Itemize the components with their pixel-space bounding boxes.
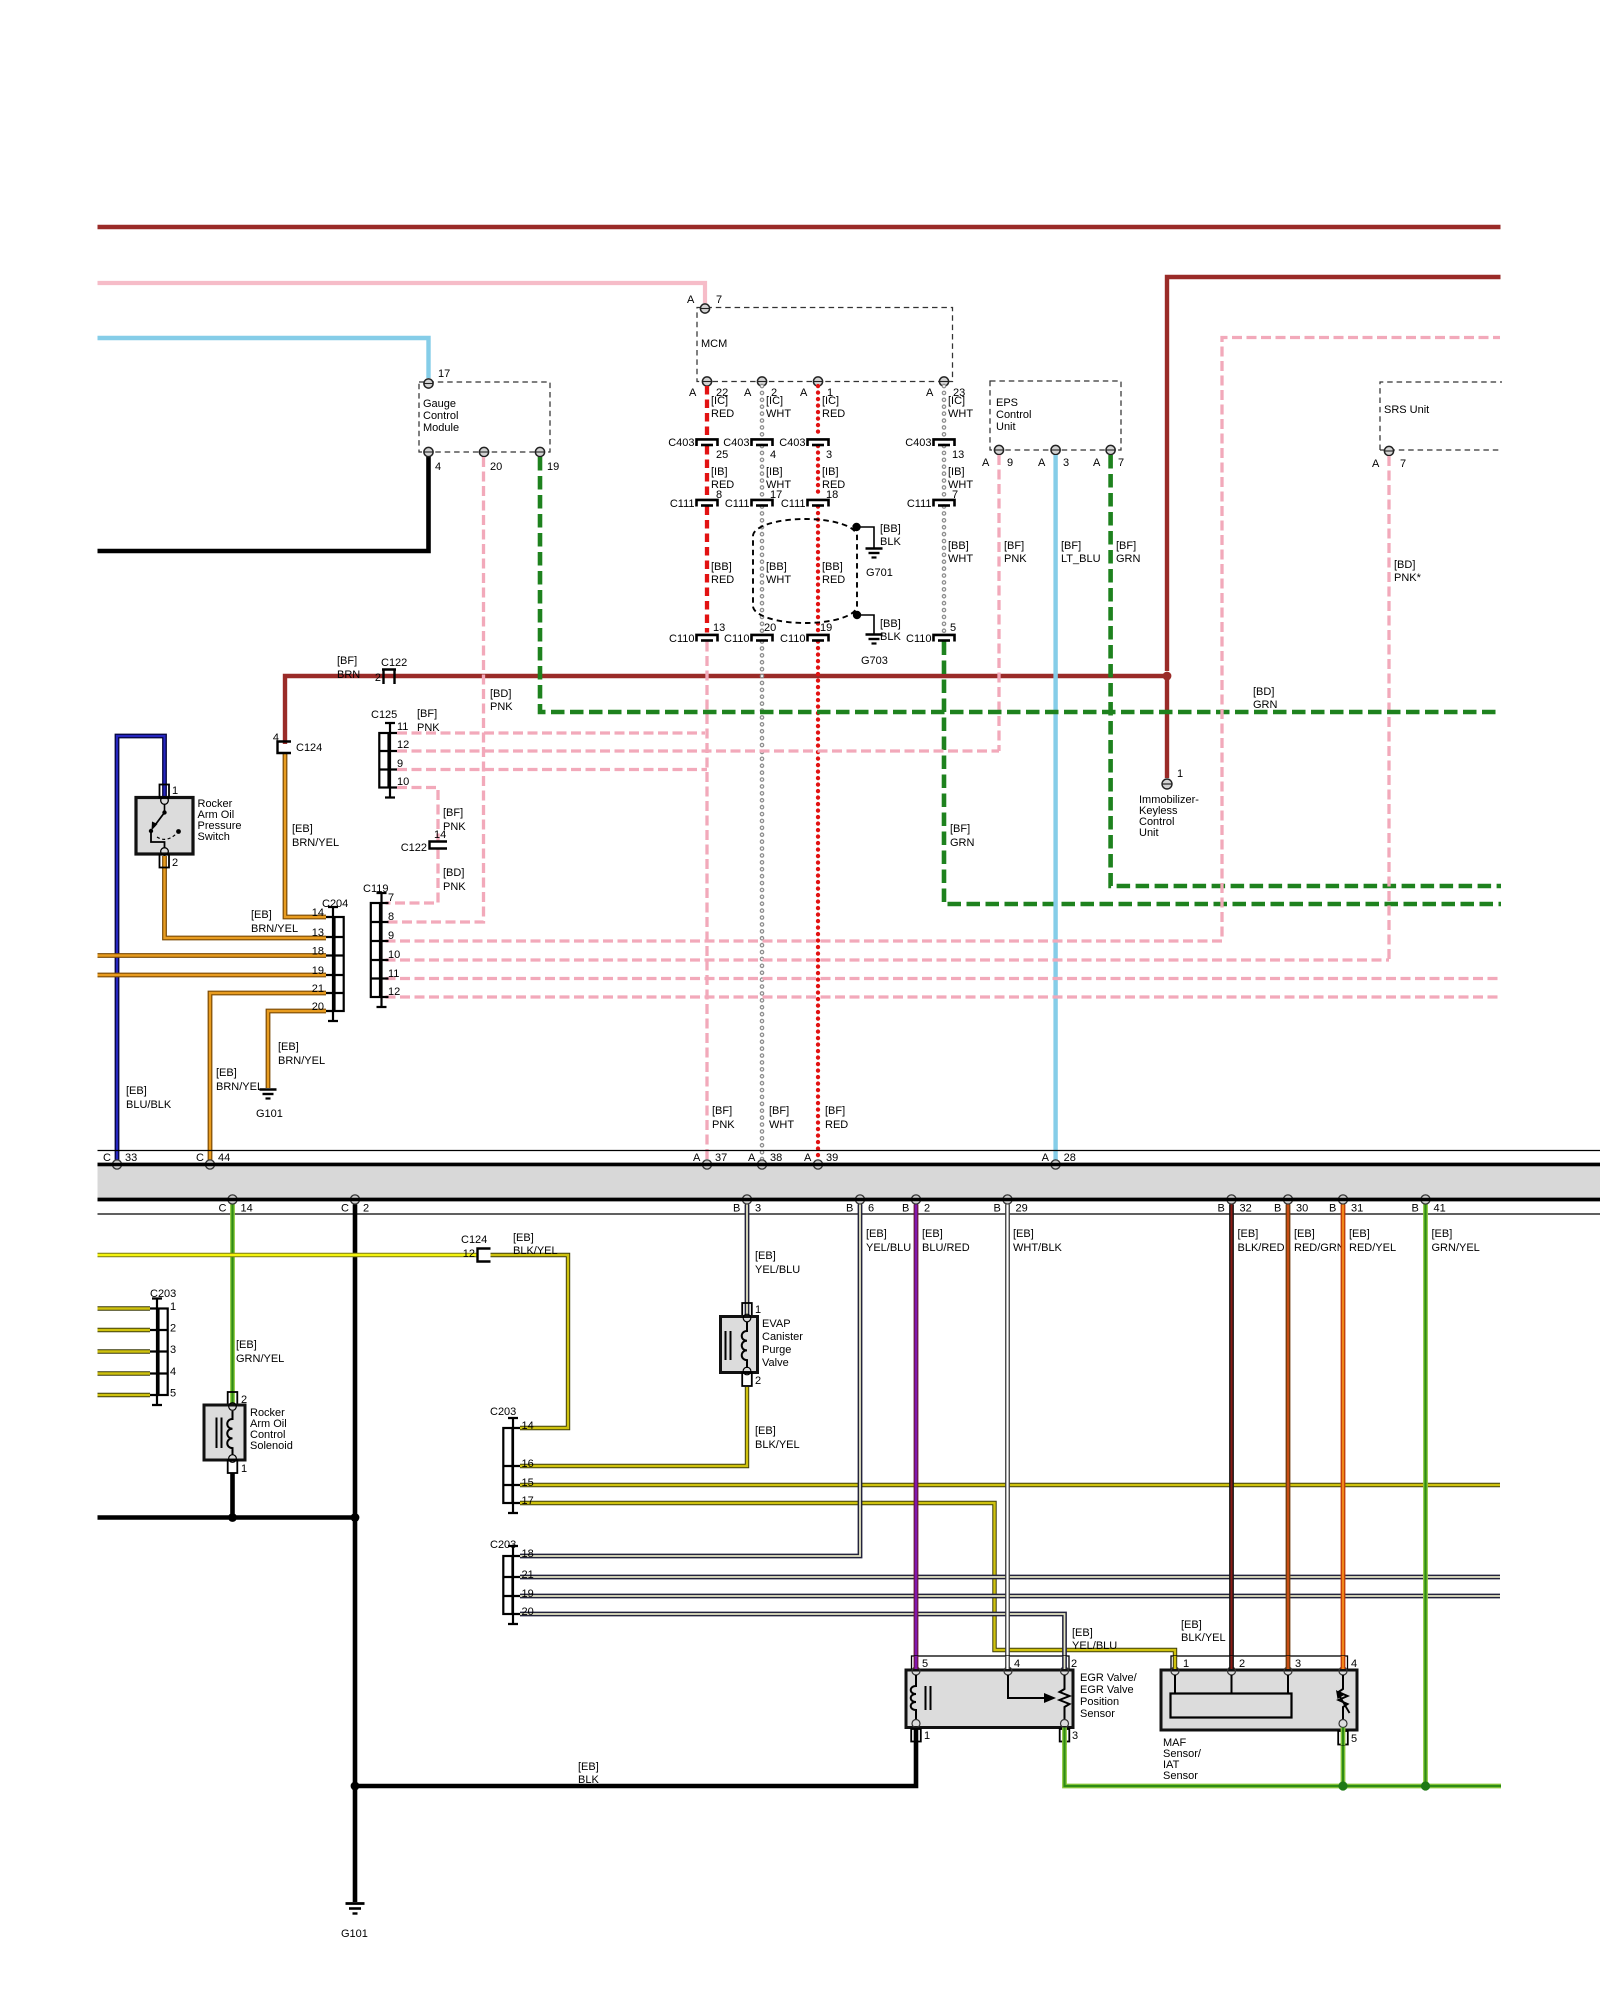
svg-text:Control: Control: [423, 410, 458, 422]
svg-text:BLK/RED: BLK/RED: [1238, 1242, 1285, 1254]
svg-text:C119: C119: [363, 883, 388, 895]
wire: [IC]/[IB]/[BB] WHT MCM A23 (circle chain): [942, 386, 947, 633]
svg-text:9: 9: [388, 930, 394, 942]
connector C124 pin 4: [278, 742, 292, 754]
bus pin C33: [112, 1160, 121, 1169]
bus pin B2: [911, 1195, 920, 1204]
connector C111 x944: [934, 500, 955, 507]
svg-text:18: 18: [312, 946, 324, 958]
svg-text:28: 28: [1064, 1152, 1076, 1164]
svg-text:RED: RED: [711, 479, 734, 491]
wire: [BD] PNK* from SRS A7 to C119 pin 10 row: [1387, 456, 1390, 960]
svg-text:[EB]: [EB]: [1013, 1228, 1034, 1240]
wire: C125 pin 11 pink row: [397, 731, 705, 734]
svg-text:LT_BLU: LT_BLU: [1061, 553, 1101, 565]
svg-text:8: 8: [716, 489, 722, 501]
component: Rocker Arm Oil Control Solenoid: [228, 1392, 238, 1405]
svg-text:3: 3: [1063, 457, 1069, 469]
svg-text:WHT: WHT: [766, 574, 791, 586]
svg-text:C110: C110: [780, 633, 805, 645]
connector C203 (upper, pins 14 16 15 17): [503, 1418, 520, 1513]
wire: shield drain to G703: [857, 615, 874, 634]
svg-text:Unit: Unit: [996, 421, 1016, 433]
connector C203 (left, pins 1-5): [150, 1299, 168, 1406]
svg-text:2: 2: [375, 672, 381, 684]
svg-text:PNK: PNK: [443, 881, 466, 893]
pin A23 MCM: [939, 377, 948, 386]
shield around A2/A1 wires: [753, 519, 857, 623]
svg-text:12: 12: [388, 986, 400, 998]
wire: [BF] PNK below C110-13 to bus A37: [705, 642, 708, 1163]
pin 20 Gauge: [479, 447, 488, 456]
wire: dark red drop to Immobilizer pin 1: [1165, 676, 1169, 778]
svg-text:BRN/YEL: BRN/YEL: [216, 1081, 263, 1093]
wire: black solenoid pin 1 down: [230, 1473, 235, 1518]
svg-text:20: 20: [490, 461, 502, 473]
component: MAF Sensor / IAT Sensor: [1171, 1656, 1348, 1670]
wire: [EB] BLK from EGR pin 1 to C2 vertical: [355, 1741, 916, 1786]
wire: C119 pin 9 pink row to SRS-area riser: [386, 338, 1501, 942]
svg-text:2: 2: [170, 1323, 176, 1335]
connector C119: [371, 893, 389, 1007]
svg-text:5: 5: [170, 1388, 176, 1400]
svg-text:[BF]: [BF]: [712, 1105, 732, 1117]
svg-text:6: 6: [868, 1203, 874, 1215]
svg-text:[BF]: [BF]: [769, 1105, 789, 1117]
svg-text:20: 20: [522, 1606, 534, 1618]
svg-text:A: A: [693, 1152, 701, 1164]
wire: [BF] BRN horizontal: [285, 676, 1167, 744]
svg-text:[EB]: [EB]: [292, 823, 313, 835]
svg-text:B: B: [846, 1203, 853, 1215]
svg-text:12: 12: [463, 1248, 475, 1260]
svg-text:C111: C111: [781, 498, 806, 510]
svg-text:B: B: [902, 1203, 909, 1215]
MAF element rectangle: [1171, 1694, 1292, 1718]
svg-text:9: 9: [397, 758, 403, 770]
svg-text:2: 2: [172, 857, 178, 869]
svg-text:21: 21: [522, 1569, 534, 1581]
svg-text:[EB]: [EB]: [1432, 1228, 1453, 1240]
bus pin A39: [813, 1160, 822, 1169]
bus pin B31: [1338, 1195, 1347, 1204]
svg-text:44: 44: [218, 1152, 230, 1164]
wire: [BD] GRN from Gauge pin 19: [540, 457, 1501, 712]
svg-text:4: 4: [273, 732, 279, 744]
svg-text:19: 19: [547, 461, 559, 473]
svg-text:[EB]: [EB]: [578, 1761, 599, 1773]
svg-text:12: 12: [397, 739, 409, 751]
svg-text:PNK: PNK: [490, 701, 513, 713]
svg-text:10: 10: [388, 949, 400, 961]
ground G701: [866, 549, 883, 558]
component: MCM box: [697, 308, 953, 382]
svg-text:[BF]: [BF]: [417, 708, 437, 720]
connector C125: [379, 723, 397, 798]
EGR position sensor potentiometer: [1008, 1675, 1070, 1720]
svg-text:7: 7: [716, 294, 722, 306]
bus pin A38: [757, 1160, 766, 1169]
svg-text:GRN/YEL: GRN/YEL: [1432, 1242, 1480, 1254]
pin A9 EPS: [994, 445, 1003, 454]
svg-text:BRN/YEL: BRN/YEL: [251, 923, 298, 935]
svg-text:[IB]: [IB]: [711, 466, 728, 478]
ground G703: [866, 635, 883, 644]
svg-text:[BF]: [BF]: [950, 823, 970, 835]
svg-text:BRN/YEL: BRN/YEL: [278, 1055, 325, 1067]
wire: black horizontal left margin: [98, 1515, 356, 1520]
svg-text:C203: C203: [490, 1406, 516, 1418]
svg-text:[IC]: [IC]: [948, 395, 965, 407]
connector C122 pin 14: [430, 842, 448, 849]
svg-text:Solenoid: Solenoid: [250, 1440, 293, 1452]
svg-text:10: 10: [397, 776, 409, 788]
bus pin A37: [702, 1160, 711, 1169]
wire: [EB] BRN/YEL C204 pin 21 to bus C44: [210, 993, 326, 1162]
svg-text:BLU/BLK: BLU/BLK: [126, 1099, 172, 1111]
svg-text:30: 30: [1296, 1203, 1308, 1215]
wire: power rail [B+] dark red horizontal top: [98, 225, 1501, 230]
wire: C125 pin 10 via C122 pin 14 to C119 pin 7: [397, 788, 438, 842]
wire: black bus C2 down to G101: [353, 1205, 358, 1903]
svg-text:15: 15: [522, 1477, 534, 1489]
svg-text:Module: Module: [423, 422, 459, 434]
bus pin B32: [1227, 1195, 1236, 1204]
svg-text:RED: RED: [711, 408, 734, 420]
svg-text:Canister: Canister: [762, 1331, 803, 1343]
IAT thermistor: [1339, 1675, 1348, 1720]
wire: light blue feed to Gauge Control Module pin 17: [98, 338, 429, 378]
wire: [EB] YEL/BLU bus B6 to C203 pin 18: [520, 1205, 860, 1557]
connector C204: [326, 907, 344, 1021]
svg-text:21: 21: [312, 983, 324, 995]
pin A1 MCM: [813, 377, 822, 386]
svg-text:4: 4: [1014, 1658, 1020, 1670]
wire: [EB] BRN/YEL from C124 pin 4 to C204 pin 14: [285, 753, 326, 917]
svg-text:Control: Control: [996, 409, 1031, 421]
svg-text:Purge: Purge: [762, 1344, 791, 1356]
wire: C119 pin 10 pink row to SRS A7 wire: [386, 958, 1390, 961]
svg-text:3: 3: [1072, 1730, 1078, 1742]
ground G101 bottom: [346, 1904, 365, 1914]
svg-text:B: B: [1412, 1203, 1419, 1215]
svg-text:[BB]: [BB]: [711, 561, 732, 573]
svg-text:32: 32: [1240, 1203, 1252, 1215]
svg-text:RED: RED: [825, 1119, 848, 1131]
wire: [EB] GRN/YEL bus C14 to solenoid pin 2: [230, 1205, 235, 1405]
svg-text:A: A: [982, 457, 990, 469]
svg-text:[EB]: [EB]: [866, 1228, 887, 1240]
pin A3 EPS: [1051, 445, 1060, 454]
svg-text:[BD]: [BD]: [490, 688, 511, 700]
svg-text:G101: G101: [341, 1928, 368, 1940]
ground G101 upper: [260, 1090, 277, 1099]
svg-text:1: 1: [172, 785, 178, 797]
wire: C125 pin 12 pink row to EPS A9: [397, 749, 999, 752]
svg-text:B: B: [1274, 1203, 1281, 1215]
wire: green from MAF pin 5: [1341, 1745, 1346, 1786]
svg-text:3: 3: [826, 449, 832, 461]
connector C111 x707: [697, 500, 718, 507]
node: shield tap bottom: [853, 611, 861, 619]
svg-text:A: A: [1372, 458, 1380, 470]
wire: [EB] BLK/YEL from C124 pin 12 to C203 pin 14: [491, 1255, 569, 1428]
svg-text:14: 14: [312, 907, 324, 919]
svg-text:1: 1: [170, 1301, 176, 1313]
connector C203 (lower, pins 18 21 19 20): [503, 1546, 520, 1624]
svg-text:Position: Position: [1080, 1696, 1119, 1708]
svg-text:C124: C124: [296, 742, 322, 754]
bus pin C2: [350, 1195, 359, 1204]
svg-text:BRN/YEL: BRN/YEL: [292, 837, 339, 849]
node: black junction at solenoid drop: [228, 1513, 237, 1522]
connector C403 x762: [752, 439, 773, 446]
svg-text:[EB]: [EB]: [236, 1339, 257, 1351]
wire: [EB] BLU/RED bus B2 to EGR pin 5: [914, 1205, 919, 1670]
pin 1 Immobilizer-Keyless Control Unit: [1162, 779, 1172, 789]
svg-text:C: C: [219, 1203, 227, 1215]
svg-text:[EB]: [EB]: [755, 1425, 776, 1437]
wire: [EB] BLK/YEL from EVAP pin 2 to C203 pin 16: [520, 1387, 747, 1466]
svg-text:YEL/BLU: YEL/BLU: [755, 1264, 800, 1276]
wire: YEL/BLU C203 pin 19 row: [520, 1594, 1500, 1599]
svg-text:RED: RED: [822, 574, 845, 586]
svg-text:1: 1: [1183, 1658, 1189, 1670]
svg-text:[BB]: [BB]: [948, 540, 969, 552]
node: junction dark red at (1167,676): [1163, 672, 1172, 681]
component: EGR Valve / EGR Valve Position Sensor: [912, 1656, 1070, 1670]
wire: [EB] GRN/YEL bus B41 to green junction: [1423, 1205, 1428, 1787]
svg-text:BLK/YEL: BLK/YEL: [513, 1245, 558, 1257]
pin 4 Gauge: [424, 447, 433, 456]
svg-text:19: 19: [312, 965, 324, 977]
svg-text:20: 20: [312, 1001, 324, 1013]
wire: [EB] BLK/YEL C203 pin 15 row: [520, 1483, 1500, 1487]
wire: C125 pin 9 pink row: [397, 768, 707, 771]
node: green junction at B41: [1421, 1781, 1430, 1790]
svg-text:[EB]: [EB]: [513, 1232, 534, 1244]
svg-text:19: 19: [820, 622, 832, 634]
svg-text:2: 2: [924, 1203, 930, 1215]
wire: C119 pin 12 pink row: [386, 995, 1501, 998]
pin A7 SRS: [1384, 446, 1393, 455]
svg-text:EVAP: EVAP: [762, 1318, 791, 1330]
svg-text:4: 4: [1351, 1658, 1357, 1670]
svg-text:3: 3: [755, 1203, 761, 1215]
svg-text:33: 33: [125, 1152, 137, 1164]
svg-text:C403: C403: [905, 437, 931, 449]
svg-text:14: 14: [522, 1420, 534, 1432]
svg-text:13: 13: [312, 927, 324, 939]
svg-text:YEL/BLU: YEL/BLU: [866, 1242, 911, 1254]
svg-text:17: 17: [522, 1495, 534, 1507]
svg-text:EPS: EPS: [996, 397, 1018, 409]
EGR solenoid coil: [911, 1675, 931, 1720]
svg-text:1: 1: [755, 1304, 761, 1316]
wire: [BF] LT_BLU from EPS A3 to bus A28: [1053, 455, 1057, 1162]
svg-text:GRN/YEL: GRN/YEL: [236, 1353, 284, 1365]
pin 19 Gauge: [535, 447, 544, 456]
svg-text:29: 29: [1016, 1203, 1028, 1215]
wire: [IC]/[IB]/[BB] RED dotted MCM A1, continues as [BF] RED to bus A39: [816, 386, 820, 1162]
bus pin B29: [1003, 1195, 1012, 1204]
svg-text:[BF]: [BF]: [1116, 540, 1136, 552]
svg-text:G701: G701: [866, 567, 893, 579]
svg-text:C111: C111: [725, 498, 750, 510]
svg-text:[BF]: [BF]: [443, 807, 463, 819]
svg-text:20: 20: [764, 622, 776, 634]
svg-text:[EB]: [EB]: [1072, 1627, 1093, 1639]
bus pin B3: [742, 1195, 751, 1204]
svg-text:RED: RED: [822, 408, 845, 420]
bus pin C14: [228, 1195, 237, 1204]
svg-text:B: B: [1329, 1203, 1336, 1215]
svg-text:1: 1: [924, 1730, 930, 1742]
node: black junction at (355,1786): [351, 1782, 360, 1791]
wire: pink feed to MCM A7: [98, 283, 706, 303]
svg-text:[EB]: [EB]: [216, 1067, 237, 1079]
wire: green from EGR pin 3 along bottom: [1065, 1742, 1502, 1787]
svg-text:[BB]: [BB]: [822, 561, 843, 573]
bus pin C44: [205, 1160, 214, 1169]
component: EVAP Canister Purge Valve: [742, 1303, 752, 1317]
svg-text:GRN: GRN: [1253, 699, 1278, 711]
connector C111 x818: [808, 500, 829, 507]
wire: [EB] YEL/BLU bus B3 to EVAP pin 1: [745, 1205, 750, 1317]
svg-text:PNK*: PNK*: [1394, 572, 1422, 584]
wire stubs through pin bands: [916, 1656, 1343, 1745]
svg-text:YEL/BLU: YEL/BLU: [1072, 1640, 1117, 1652]
svg-text:A: A: [804, 1152, 812, 1164]
pin A22 MCM: [702, 377, 711, 386]
svg-text:7: 7: [952, 489, 958, 501]
svg-text:[EB]: [EB]: [1294, 1228, 1315, 1240]
svg-text:3: 3: [1295, 1658, 1301, 1670]
bus thick lines over pins: [98, 1163, 1600, 1167]
wire: [IC]/[IB]/[BB] RED dashed MCM A22: [705, 386, 709, 633]
pin A7 MCM: [700, 304, 709, 313]
svg-text:[EB]: [EB]: [1349, 1228, 1370, 1240]
svg-text:C203: C203: [490, 1539, 516, 1551]
svg-text:BRN: BRN: [337, 669, 360, 681]
svg-text:WHT: WHT: [948, 553, 973, 565]
connector C403 x944: [934, 439, 955, 446]
pin 17 Gauge: [424, 379, 433, 388]
svg-text:C122: C122: [401, 842, 427, 854]
svg-text:BLK: BLK: [880, 536, 901, 548]
svg-text:[BD]: [BD]: [1394, 559, 1415, 571]
connector C111 x762: [752, 500, 773, 507]
svg-text:13: 13: [952, 449, 964, 461]
svg-text:C403: C403: [779, 437, 805, 449]
svg-text:[BB]: [BB]: [880, 618, 901, 630]
component: EPS Control Unit box: [990, 381, 1121, 450]
svg-text:C204: C204: [322, 898, 348, 910]
wire: [EB] BLU/BLK from switch pin 1 to bus C33: [117, 736, 165, 1162]
svg-text:C110: C110: [669, 633, 694, 645]
svg-text:5: 5: [950, 622, 956, 634]
svg-text:B: B: [1218, 1203, 1225, 1215]
node: black junction at C2/horizontal: [351, 1513, 360, 1522]
wire: [EB] RED/YEL bus B31 to MAF pin 4: [1341, 1205, 1346, 1670]
svg-text:41: 41: [1434, 1203, 1446, 1215]
svg-text:2: 2: [1071, 1658, 1077, 1670]
wire: [IC]/[IB]/[BB] WHT MCM A2 (circle chain): [760, 386, 765, 1162]
svg-text:25: 25: [716, 449, 728, 461]
svg-text:C111: C111: [907, 498, 932, 510]
connector C110 x818: [808, 635, 829, 642]
bus bar: [98, 1150, 1600, 1152]
component: SRS Unit box: [1380, 382, 1502, 450]
connector C124 pin 12: [478, 1249, 491, 1262]
svg-text:BLK: BLK: [880, 631, 901, 643]
svg-text:C403: C403: [668, 437, 694, 449]
svg-text:4: 4: [770, 449, 776, 461]
svg-text:BLU/RED: BLU/RED: [922, 1242, 970, 1254]
svg-text:[BB]: [BB]: [766, 561, 787, 573]
wire: [BD] PNK from Gauge pin 20 to C119 pin 8: [386, 457, 484, 922]
bus pin A28: [1051, 1160, 1060, 1169]
svg-text:C122: C122: [381, 657, 407, 669]
component: Gauge Control Module box: [419, 382, 550, 452]
wire: [BF] GRN below C110-5: [944, 642, 1501, 905]
svg-text:A: A: [748, 1152, 756, 1164]
wire: [EB] YEL/BLU C203 pin 20 to EGR pin 2: [520, 1614, 1065, 1669]
connector C110 x762: [752, 635, 773, 642]
wire: [EB] BRN/YEL from switch pin 2 to C204 pin 13: [165, 856, 327, 938]
svg-text:WHT: WHT: [948, 408, 973, 420]
wires: olive stubs into left C203 pins 1-5: [98, 1309, 151, 1396]
pin A7 EPS: [1106, 445, 1115, 454]
svg-text:Gauge: Gauge: [423, 398, 456, 410]
svg-text:5: 5: [1351, 1733, 1357, 1745]
node: green junction at MAF5: [1338, 1781, 1347, 1790]
svg-text:GRN: GRN: [950, 837, 975, 849]
svg-text:WHT: WHT: [766, 408, 791, 420]
component: Rocker Arm Oil Pressure Switch: [136, 798, 193, 855]
svg-text:7: 7: [1118, 457, 1124, 469]
svg-text:C: C: [196, 1152, 204, 1164]
svg-text:2: 2: [755, 1375, 761, 1387]
svg-text:3: 3: [170, 1344, 176, 1356]
svg-text:PNK: PNK: [417, 722, 440, 734]
svg-text:A: A: [1042, 1152, 1050, 1164]
svg-text:16: 16: [522, 1458, 534, 1470]
svg-text:SRS Unit: SRS Unit: [1384, 404, 1429, 416]
svg-text:4: 4: [170, 1366, 176, 1378]
svg-text:RED/GRN: RED/GRN: [1294, 1242, 1345, 1254]
svg-text:Sensor: Sensor: [1163, 1770, 1198, 1782]
svg-text:[EB]: [EB]: [126, 1085, 147, 1097]
svg-text:C110: C110: [906, 633, 931, 645]
bus pin B6: [855, 1195, 864, 1204]
svg-text:2: 2: [363, 1203, 369, 1215]
svg-text:GRN: GRN: [1116, 553, 1141, 565]
svg-text:EGR Valve/: EGR Valve/: [1080, 1672, 1138, 1684]
svg-text:C110: C110: [724, 633, 749, 645]
svg-text:14: 14: [241, 1203, 253, 1215]
connector C110 x944: [934, 635, 955, 642]
svg-text:Sensor: Sensor: [1080, 1708, 1115, 1720]
svg-text:[BF]: [BF]: [337, 655, 357, 667]
connector C403 x707: [697, 439, 718, 446]
svg-text:WHT: WHT: [769, 1119, 794, 1131]
svg-text:[BF]: [BF]: [1004, 540, 1024, 552]
svg-text:7: 7: [1400, 458, 1406, 470]
connector C403 x818: [808, 439, 829, 446]
svg-text:A: A: [1093, 457, 1101, 469]
svg-text:5: 5: [922, 1658, 928, 1670]
